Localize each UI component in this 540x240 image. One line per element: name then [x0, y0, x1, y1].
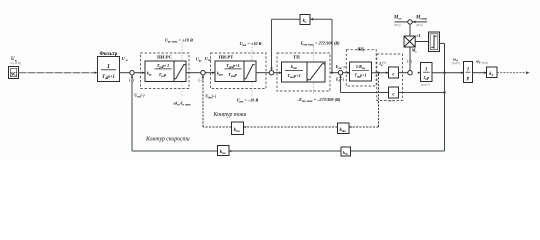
thyristor converter dashed box ТП: [277, 53, 330, 91]
setpoint block ЗС: [9, 67, 19, 79]
svg-text:Контур скорости: Контур скорости: [145, 136, 190, 142]
saturation element of РС: [174, 65, 185, 79]
speed regulator dashed box ПИ-РС: [141, 53, 190, 89]
speed feedback wire: [131, 75, 445, 151]
svg-text:ТП: ТП: [293, 55, 300, 60]
wire Мс to sum5: [409, 47, 411, 71]
tick saturation РС bottom: [181, 82, 183, 97]
block 1/p integrator: [464, 62, 473, 83]
svg-text:Мсопр: Мсопр: [415, 15, 427, 20]
block kд: [487, 67, 498, 78]
summing junction 1 (speed error): [129, 71, 134, 83]
svg-text:1: 1: [425, 67, 428, 72]
node ωд label: [452, 56, 460, 65]
multiplier block X: [404, 33, 421, 47]
wire ЗС to filter (dashed): [19, 72, 96, 74]
wire JΣ to 1/p: [432, 72, 464, 74]
svg-text:kд: kд: [489, 72, 493, 77]
node φд label: [476, 58, 488, 64]
wire ЯЦ to c: [372, 72, 389, 74]
svg-text:(Н·м): (Н·м): [416, 24, 423, 27]
armature circuit dashed box ЯЦ: [343, 47, 376, 86]
summing junction 3 (EMF compensation add): [269, 71, 273, 75]
current regulator dashed box ПИ-РТ: [211, 53, 267, 89]
block (1/Rяц)/(Tяц p+1): [350, 62, 372, 81]
wire sum2 to ПИ-РТ: [205, 72, 215, 74]
node Мсопр label: [415, 15, 427, 27]
block kрт + (Tрт p+1)/(Tрт p): [215, 61, 256, 82]
sign block (signum of speed): [429, 32, 440, 52]
wire speed tap to sign block: [440, 43, 445, 72]
current sensor block kтт (left): [232, 122, 246, 135]
svg-text:kдт: kдт: [339, 128, 346, 133]
svg-text:(В·с): (В·с): [389, 100, 395, 103]
wire comp junction to ТП: [274, 72, 282, 74]
svg-text:(рад/с): (рад/с): [452, 61, 460, 65]
svg-text:ЯЦ: ЯЦ: [357, 47, 364, 52]
node Uзс label: [11, 57, 21, 65]
speed sensor block kдс (right): [341, 147, 351, 156]
svg-text:р: р: [466, 76, 470, 81]
filter block Фильтр: [95, 52, 120, 81]
svg-text:ПИ-РТ: ПИ-РТ: [219, 55, 234, 60]
wire 1/p to kд: [473, 72, 487, 74]
wire ТП to sum4: [330, 72, 338, 74]
svg-text:Контур тока: Контур тока: [213, 112, 247, 118]
svg-text:ЗС: ЗС: [10, 72, 17, 78]
block kрс + (Tрс p+1)/(Tрс p): [145, 61, 186, 82]
block kтп/(Tтп p+1): [282, 62, 326, 82]
wire sum1 to PI-RS: [134, 72, 145, 74]
summing junction 2 (current error): [198, 71, 205, 83]
svg-text:(Н·м): (Н·м): [394, 24, 401, 27]
node Мхх label: [393, 16, 402, 28]
compensation gain block kе: [300, 15, 313, 25]
svg-text:1: 1: [107, 64, 110, 70]
svg-text:kе: kе: [303, 19, 307, 24]
svg-text:±1: ±1: [416, 33, 420, 38]
saturation element of РТ: [244, 65, 254, 79]
EMF feedback wire: [339, 73, 445, 94]
tick label to saturation РС top: [181, 43, 183, 61]
speed sensor block kтг (left): [218, 146, 232, 156]
wire filter to sum1: [120, 72, 130, 74]
saturation element of ТП: [307, 64, 325, 80]
summing junction 5 (load torque): [407, 48, 418, 75]
current feedback wire (dashed): [202, 74, 379, 127]
tick ТП bottom: [313, 83, 315, 94]
block 1/(JΣ p): [418, 63, 432, 82]
wire c to sum5: [399, 72, 408, 74]
node Iя pickup: [377, 61, 385, 74]
tick РТ top: [251, 47, 253, 61]
svg-text:kтг: kтг: [220, 150, 227, 155]
svg-text:(рад/с²): (рад/с²): [421, 84, 430, 87]
svg-text:1: 1: [467, 67, 470, 72]
svg-text:Мхх: Мхх: [393, 16, 402, 21]
block c (torque constant): [389, 67, 399, 78]
motor dashed box: [377, 54, 403, 101]
svg-text:ПИ-РС: ПИ-РС: [157, 55, 172, 60]
summing junction 4 (EMF subtract): [335, 71, 344, 83]
compensation feedback wire up-left: [270, 19, 332, 70]
svg-text:(рад): (рад): [482, 60, 488, 64]
current sensor block kдт (right): [338, 123, 352, 134]
node ωд pickup: [443, 72, 445, 74]
block c (EMF constant, feedback): [389, 87, 399, 103]
wire РТ to comp junction: [256, 72, 269, 74]
wire sign to multiplier: [415, 41, 428, 43]
svg-text:(0÷10 В): (0÷10 В): [11, 62, 21, 65]
svg-text:kтс: kтс: [234, 128, 241, 133]
torque input junction Мхх/Мсопр: [395, 20, 428, 24]
wire РС to sum2: [186, 72, 201, 74]
svg-text:Тфр+1: Тфр+1: [102, 75, 115, 80]
compensation pickup wire down: [331, 19, 333, 74]
tick ТП top: [313, 46, 315, 62]
tick РТ bottom: [251, 82, 253, 96]
wire М junction down to multiplier: [409, 24, 411, 36]
output wire with arrow: [497, 71, 530, 74]
